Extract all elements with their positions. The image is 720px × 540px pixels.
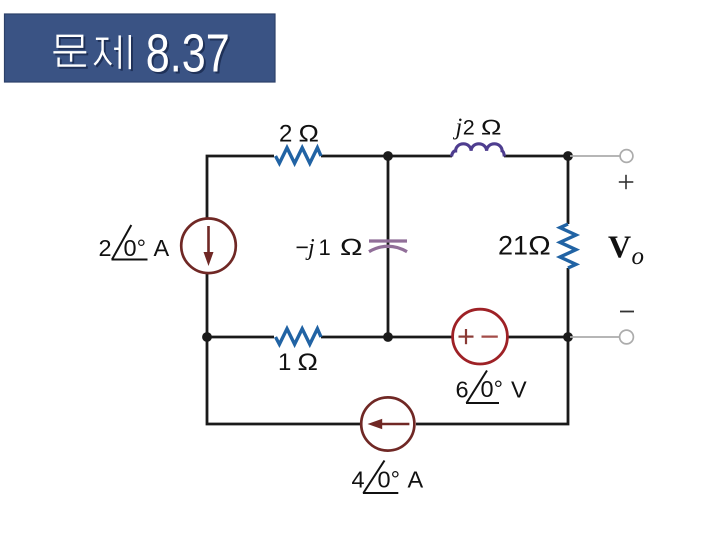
svg-text:V: V — [511, 377, 527, 403]
svg-text:Ω: Ω — [340, 233, 363, 260]
svg-text:1: 1 — [278, 349, 291, 376]
svg-text:Ω: Ω — [481, 116, 502, 139]
svg-text:0°: 0° — [124, 235, 146, 261]
svg-text:8.37: 8.37 — [146, 24, 230, 84]
svg-text:A: A — [408, 467, 424, 493]
svg-text:A: A — [154, 235, 170, 261]
svg-text:Ω: Ω — [298, 121, 319, 147]
svg-text:0°: 0° — [481, 376, 503, 402]
svg-text:Ω: Ω — [297, 350, 318, 376]
svg-text:o: o — [632, 243, 645, 270]
svg-text:−: − — [296, 234, 309, 260]
svg-text:V: V — [608, 229, 631, 265]
svg-text:2: 2 — [279, 121, 292, 148]
svg-text:6: 6 — [456, 377, 469, 403]
svg-text:1: 1 — [319, 235, 331, 260]
svg-text:4: 4 — [352, 467, 365, 493]
svg-text:j: j — [453, 115, 463, 141]
svg-text:2: 2 — [463, 116, 475, 140]
svg-text:0°: 0° — [378, 467, 400, 493]
svg-text:2: 2 — [99, 235, 112, 261]
svg-text:Ω: Ω — [528, 231, 551, 261]
svg-text:21: 21 — [498, 231, 528, 261]
